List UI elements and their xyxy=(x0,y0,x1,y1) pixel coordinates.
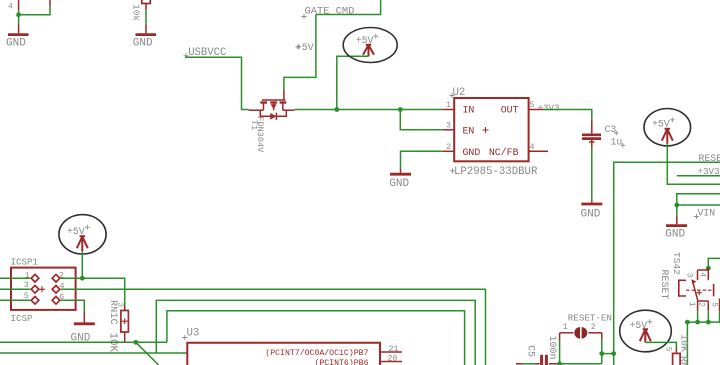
svg-text:(PCINT7/OC0A/OC1C)PB7: (PCINT7/OC0A/OC1C)PB7 xyxy=(265,348,368,358)
svg-text:GND: GND xyxy=(133,37,153,49)
svg-text:NC/FB: NC/FB xyxy=(489,147,519,158)
wire to U3 left pin xyxy=(0,352,187,354)
RESETEN-SECTION xyxy=(516,312,616,365)
pin 4 stub from above xyxy=(8,0,19,12)
node junction xyxy=(695,320,700,325)
svg-text:5: 5 xyxy=(710,302,718,307)
pad 5 xyxy=(24,292,39,304)
wire top right to switch xyxy=(708,258,720,268)
capacitor C3 xyxy=(582,120,625,148)
svg-text:+3V3: +3V3 xyxy=(698,166,720,177)
annotation ellipse xyxy=(644,109,691,146)
svg-text:GATE_CMD: GATE_CMD xyxy=(305,6,355,18)
svg-text:10k: 10k xyxy=(131,4,142,21)
resistor RN1D 10K xyxy=(663,334,688,365)
wire EN to IN xyxy=(400,110,443,130)
svg-text:+5V: +5V xyxy=(652,119,670,130)
node junction xyxy=(685,320,690,325)
resistor R1 10k xyxy=(131,0,151,21)
svg-text:VIN: VIN xyxy=(698,208,716,219)
ground xyxy=(581,200,603,220)
node junction xyxy=(557,361,562,365)
ground xyxy=(389,169,411,190)
node junction xyxy=(706,266,711,271)
wire C3 to gnd xyxy=(591,148,593,201)
svg-text:OUT: OUT xyxy=(501,105,519,116)
wire to +5V symbol xyxy=(337,56,369,109)
wire pin3 xyxy=(0,288,30,290)
wire pin6 to gnd xyxy=(61,300,85,311)
svg-text:(PCINT6)PB6: (PCINT6)PB6 xyxy=(314,358,368,365)
wire USBVCC xyxy=(185,57,249,109)
svg-text:1: 1 xyxy=(25,272,30,281)
svg-text:20: 20 xyxy=(388,355,398,364)
wire pin2 to +5V and RN1C xyxy=(61,278,125,305)
label U2 xyxy=(450,87,466,99)
RIGHT-SECTION xyxy=(614,109,720,365)
svg-text:U3: U3 xyxy=(187,327,200,339)
svg-text:2: 2 xyxy=(446,143,451,152)
pin 2 GND xyxy=(443,143,480,158)
svg-text:TS42: TS42 xyxy=(671,252,682,275)
wire diagonal xyxy=(136,342,159,365)
wire pin1 xyxy=(0,277,30,279)
label U3 xyxy=(182,327,199,340)
pad 4 xyxy=(52,282,64,293)
svg-text:+5V: +5V xyxy=(356,35,374,46)
svg-text:1: 1 xyxy=(687,302,695,307)
wire +5V down xyxy=(81,251,83,278)
wire xyxy=(145,10,147,25)
wire branch to reset line xyxy=(602,353,614,355)
connector ICSP1 box xyxy=(11,268,76,310)
wire C5 left xyxy=(516,363,535,365)
svg-text:IN: IN xyxy=(463,105,475,116)
svg-text:C5: C5 xyxy=(525,345,536,357)
svg-text:LP2985-33DBUR: LP2985-33DBUR xyxy=(454,166,538,178)
supply +5V symbol xyxy=(356,34,379,57)
wire jumper right leg xyxy=(601,333,603,364)
wire +5V rail xyxy=(295,109,444,111)
op-amp U2 LP2985-33DBVR box xyxy=(454,98,528,161)
svg-text:ICSP1: ICSP1 xyxy=(11,257,39,268)
TOP-LEFT-SECTION xyxy=(6,0,381,110)
wire bus xyxy=(687,322,720,365)
wire OUT xyxy=(544,110,592,120)
ICSP-SECTION xyxy=(0,215,486,365)
wire GATE_CMD xyxy=(316,0,381,15)
node junction xyxy=(80,276,85,281)
pin 4 NC/FB xyxy=(489,143,548,158)
node junction xyxy=(599,351,604,356)
svg-text:5: 5 xyxy=(663,347,671,352)
pin 20 PB6 xyxy=(314,355,402,365)
pin 5 OUT xyxy=(501,101,544,116)
U2-SECTION xyxy=(389,87,625,220)
wire RESET long xyxy=(614,162,720,365)
pin stub xyxy=(49,0,51,6)
svg-text:3: 3 xyxy=(116,303,124,308)
svg-text:GND: GND xyxy=(665,228,685,240)
annotation ellipse xyxy=(343,28,397,63)
wire pin5 xyxy=(0,299,30,301)
capacitor C5 100n xyxy=(525,336,559,365)
wire xyxy=(19,6,50,15)
svg-text:FDN304V: FDN304V xyxy=(255,116,265,153)
pin 3 EN xyxy=(443,121,474,136)
wire gate vertical xyxy=(284,15,316,91)
annotation ellipse xyxy=(620,310,672,352)
svg-text:+5V: +5V xyxy=(630,320,648,331)
part origin cross U2 xyxy=(483,127,489,133)
wire jumper left leg xyxy=(559,333,561,364)
svg-text:GND: GND xyxy=(6,37,26,49)
svg-text:4: 4 xyxy=(697,272,705,277)
part origin cross ICSP xyxy=(39,286,45,292)
node GATE_CMD xyxy=(302,6,355,19)
wire xyxy=(18,10,20,24)
node VIN label xyxy=(694,208,715,219)
node junction xyxy=(398,107,403,112)
svg-text:EN: EN xyxy=(463,126,475,137)
node junction xyxy=(133,340,138,345)
wire line3 xyxy=(167,311,465,365)
jumper RESET-EN xyxy=(560,312,612,338)
supply +5V symbol bottom-right xyxy=(630,319,653,342)
ground xyxy=(71,312,95,345)
wire C5 to jumper xyxy=(560,363,602,365)
wire GND pin xyxy=(401,151,444,169)
annotation ellipse xyxy=(59,215,106,254)
T1-SECTION xyxy=(249,28,444,154)
LINES-SECTION xyxy=(0,300,475,365)
svg-text:2: 2 xyxy=(59,272,64,281)
node junction xyxy=(334,107,339,112)
wire from +5V right xyxy=(667,144,720,185)
node junction xyxy=(706,320,711,325)
svg-text:+5V: +5V xyxy=(67,226,85,237)
wire upper VIN branch xyxy=(677,194,720,216)
node junction xyxy=(16,12,21,17)
node junction xyxy=(611,351,616,356)
svg-text:5: 5 xyxy=(530,101,535,110)
pad 3 xyxy=(24,281,39,293)
wire +5V to RN1D xyxy=(645,342,676,347)
svg-text:RESET-EN: RESET-EN xyxy=(568,312,612,323)
svg-text:RESET: RESET xyxy=(699,153,720,164)
pad 2 xyxy=(52,272,64,282)
supply +5V symbol right xyxy=(652,117,675,144)
svg-text:GND: GND xyxy=(581,208,601,220)
svg-text:1: 1 xyxy=(563,323,568,332)
svg-text:4: 4 xyxy=(8,3,13,12)
wire line2 xyxy=(156,300,475,365)
supply +5V symbol bottom-left xyxy=(67,225,90,252)
wire switch pins to bus xyxy=(698,311,720,322)
pad 1 xyxy=(25,272,39,282)
svg-text:RN1D: RN1D xyxy=(677,356,688,365)
svg-text:10K: 10K xyxy=(677,334,688,352)
ground xyxy=(665,216,687,241)
pad 6 xyxy=(52,293,64,304)
svg-text:4: 4 xyxy=(530,143,535,152)
svg-text:1u: 1u xyxy=(611,137,623,148)
ground xyxy=(133,25,156,50)
switch S1 TS42 xyxy=(679,268,720,311)
node +5V label xyxy=(296,42,314,53)
wire VIN xyxy=(677,204,720,206)
svg-text:ICSP: ICSP xyxy=(11,313,34,324)
op-amp U3 box xyxy=(187,343,380,365)
svg-text:21: 21 xyxy=(389,345,399,354)
svg-text:3: 3 xyxy=(446,121,451,130)
wire +3V3 stub xyxy=(677,175,720,177)
svg-text:U2: U2 xyxy=(453,87,466,99)
svg-text:RESET: RESET xyxy=(658,270,669,300)
transistor T1 FDN304V xyxy=(249,90,295,153)
svg-text:1: 1 xyxy=(446,101,451,110)
U3-SECTION xyxy=(182,327,402,365)
svg-text:100n: 100n xyxy=(546,336,557,360)
svg-text:2: 2 xyxy=(591,323,596,332)
value LP2985-33DBVR xyxy=(450,166,538,178)
svg-text:3: 3 xyxy=(685,273,693,278)
pin 1 IN xyxy=(443,101,474,116)
wire bottom bus xyxy=(0,341,167,343)
wire pin4 long xyxy=(61,289,486,365)
svg-text:GND: GND xyxy=(463,147,481,158)
node USBVCC xyxy=(184,47,227,59)
resistor RN1C xyxy=(106,300,128,352)
TS42-SECTION xyxy=(620,252,720,365)
svg-text:+3V3: +3V3 xyxy=(538,102,560,113)
svg-text:GND: GND xyxy=(389,178,409,190)
ground xyxy=(6,24,29,49)
node junction xyxy=(674,203,679,208)
pin 21 PB7 xyxy=(265,345,402,358)
